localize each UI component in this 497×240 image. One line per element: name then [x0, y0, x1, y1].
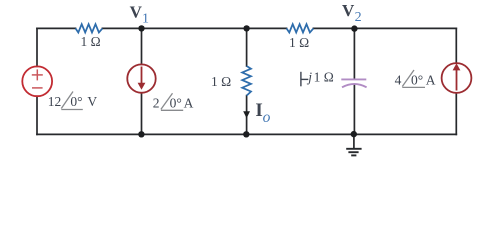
svg-text:1 Ω: 1 Ω	[81, 34, 101, 49]
svg-text:A: A	[426, 73, 436, 88]
svg-text:2: 2	[153, 95, 160, 110]
svg-text:0°: 0°	[70, 94, 82, 109]
svg-text:V: V	[130, 2, 143, 21]
svg-text:A: A	[184, 95, 194, 110]
svg-text:1 Ω: 1 Ω	[314, 69, 334, 84]
svg-text:1 Ω: 1 Ω	[289, 35, 309, 50]
svg-text:4: 4	[395, 73, 402, 88]
svg-text:0°: 0°	[411, 73, 423, 88]
svg-text:12: 12	[48, 94, 62, 109]
svg-text:j: j	[306, 69, 312, 84]
svg-text:V: V	[342, 1, 355, 20]
svg-text:0°: 0°	[170, 95, 182, 110]
svg-text:o: o	[263, 109, 271, 126]
svg-text:1: 1	[142, 12, 149, 27]
svg-text:2: 2	[355, 10, 362, 25]
svg-text:1 Ω: 1 Ω	[211, 74, 231, 89]
svg-text:V: V	[87, 94, 97, 109]
